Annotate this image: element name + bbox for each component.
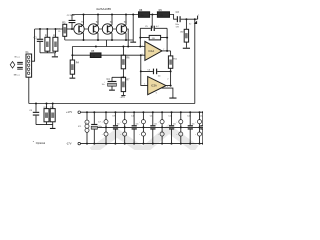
ground under R14 xyxy=(52,125,54,128)
wire IC3A pin3 to ground xyxy=(161,88,173,97)
resistor R12 xyxy=(180,19,189,42)
svg-text:R11: R11 xyxy=(174,59,178,61)
op-amp IC3A xyxy=(144,77,166,95)
resistor R8 xyxy=(139,9,150,17)
node bus2 dots xyxy=(95,46,141,48)
wire feedback right vertical xyxy=(166,28,168,51)
capacitor C11 xyxy=(150,111,158,144)
svg-text:1k: 1k xyxy=(93,56,95,58)
node collector dots xyxy=(83,39,128,41)
svg-text:R4: R4 xyxy=(76,61,80,64)
resistor R1 xyxy=(45,29,50,53)
svg-text:+: + xyxy=(120,134,121,136)
svg-text:K2: K2 xyxy=(189,23,191,25)
battery cell pair BT2 xyxy=(120,111,126,144)
ground under C4 xyxy=(109,90,115,91)
resistor R5 xyxy=(90,50,101,57)
svg-text:*: * xyxy=(33,140,35,144)
wire signal line xyxy=(35,28,63,30)
svg-text:2M2: 2M2 xyxy=(180,31,184,33)
wire bus2 xyxy=(72,46,144,48)
svg-text:NC_L: NC_L xyxy=(15,56,21,58)
capacitor C2 xyxy=(67,15,76,31)
svg-text:6: 6 xyxy=(156,92,157,94)
capacitor C10 xyxy=(131,111,139,144)
svg-text:-17V: -17V xyxy=(120,96,125,99)
svg-text:T4: T4 xyxy=(124,21,127,24)
wire base bus drop to bus2 xyxy=(127,29,129,47)
node R4 tap xyxy=(71,54,73,56)
ground under R1 R2 xyxy=(54,53,56,57)
svg-text:MIC_L: MIC_L xyxy=(14,74,21,76)
resistor R9 xyxy=(157,9,169,17)
wire from R8 R9 node down xyxy=(151,15,153,29)
connector K1 xyxy=(26,51,32,77)
svg-text:+: + xyxy=(104,82,105,84)
transistor T3 xyxy=(102,15,113,41)
wire C3 to output terminal xyxy=(181,18,198,20)
svg-text:+: + xyxy=(195,121,196,123)
svg-text:-17V: -17V xyxy=(66,142,72,146)
svg-text:10n: 10n xyxy=(192,123,195,125)
wire IC3A input drop xyxy=(141,55,148,85)
svg-text:+: + xyxy=(120,121,121,123)
svg-text:Optional: Optional xyxy=(36,142,46,145)
resistor R14 xyxy=(50,104,55,125)
wire bottom of C1 R1 R2 xyxy=(40,52,56,54)
watermark xyxy=(92,129,196,151)
svg-text:+: + xyxy=(176,121,177,123)
svg-text:+17V: +17V xyxy=(66,110,72,114)
node R1 junction xyxy=(46,28,48,30)
node R2 junction xyxy=(55,28,57,30)
capacitor C3 xyxy=(175,11,180,28)
svg-text:10n: 10n xyxy=(173,123,176,125)
resistor R13 xyxy=(44,104,49,125)
svg-text:C11: C11 xyxy=(150,116,154,118)
node C4 tap xyxy=(122,76,124,78)
node rail dots xyxy=(83,14,135,16)
svg-text:10n: 10n xyxy=(117,123,120,125)
svg-text:4n7: 4n7 xyxy=(156,26,159,28)
wire feedback top xyxy=(140,27,167,29)
wire base bus segments xyxy=(84,28,116,30)
ground xyxy=(130,42,136,43)
resistor R3 xyxy=(57,22,66,37)
svg-text:2: 2 xyxy=(167,78,168,80)
battery cell pair BT4 xyxy=(158,111,164,144)
svg-text:T2: T2 xyxy=(96,21,99,24)
battery cell pair BT3 xyxy=(139,111,145,144)
svg-text:IC1: IC1 xyxy=(78,126,82,128)
wire connector ground drop xyxy=(28,77,30,103)
svg-text:R7: R7 xyxy=(126,78,130,81)
svg-text:C13: C13 xyxy=(187,116,192,118)
battery cell pair BT6 xyxy=(195,111,201,144)
wire -17V rail xyxy=(81,143,205,145)
resistor R11 xyxy=(168,51,178,72)
capacitor C5 xyxy=(145,26,159,31)
resistor R6 xyxy=(121,47,130,69)
mic contact plates xyxy=(17,62,23,70)
svg-text:249: 249 xyxy=(152,38,155,40)
IC1 supply block xyxy=(78,111,89,144)
svg-text:C5: C5 xyxy=(145,26,149,28)
svg-text:C12: C12 xyxy=(168,116,173,118)
capacitor C8 xyxy=(29,104,39,125)
svg-text:1: 1 xyxy=(198,14,199,16)
svg-text:63V: 63V xyxy=(176,26,180,28)
wire output return xyxy=(194,19,196,103)
resistor R2 xyxy=(53,29,58,53)
svg-text:+: + xyxy=(158,121,159,123)
svg-text:C4: C4 xyxy=(107,78,111,81)
capacitor C6 xyxy=(147,69,160,78)
svg-text:+: + xyxy=(195,134,196,136)
transistor T4 xyxy=(116,15,127,41)
svg-text:1: 1 xyxy=(144,84,145,86)
svg-text:T1: T1 xyxy=(81,21,84,24)
capacitor C9 xyxy=(112,111,120,144)
svg-text:3: 3 xyxy=(167,86,168,88)
svg-text:C3: C3 xyxy=(176,11,180,14)
ground under R4 xyxy=(71,74,73,77)
svg-text:C14: C14 xyxy=(200,116,203,118)
svg-text:2: 2 xyxy=(142,45,143,47)
wire bus2 left drop xyxy=(71,47,73,61)
svg-text:10n: 10n xyxy=(136,123,139,125)
svg-text:+: + xyxy=(158,134,159,136)
node C1 junction xyxy=(39,28,41,30)
wire feedback left vertical xyxy=(139,28,141,46)
svg-text:+: + xyxy=(176,134,177,136)
svg-text:IC3A: IC3A xyxy=(151,84,157,88)
net -17V stub xyxy=(122,92,124,95)
svg-text:R6: R6 xyxy=(126,56,130,59)
svg-text:C8: C8 xyxy=(29,110,32,112)
wire R6 to R7 xyxy=(122,69,124,78)
capacitor C14 (clipped at edge) xyxy=(200,111,206,144)
capacitor C12 xyxy=(168,111,176,144)
wire IC3A feedback xyxy=(141,70,171,72)
svg-text:C1: C1 xyxy=(34,37,38,40)
microphone diamond symbol xyxy=(10,62,15,69)
battery cell pair BT5 xyxy=(176,111,182,144)
wire C8 R13 R14 taps from rail xyxy=(35,103,54,105)
svg-text:+: + xyxy=(102,121,103,123)
resistor R4 xyxy=(70,60,79,74)
svg-text:C10: C10 xyxy=(131,116,136,118)
svg-text:C2 100n: C2 100n xyxy=(67,15,76,17)
svg-text:10n: 10n xyxy=(154,123,157,125)
wire bus1 to bus2 link xyxy=(106,40,108,47)
svg-text:IC1A: IC1A xyxy=(148,49,154,53)
wire bottom return rail xyxy=(29,103,195,105)
wire R3 to T1 base xyxy=(67,28,74,30)
ground under R12 xyxy=(185,42,187,48)
wire 0V mid rail xyxy=(98,126,204,128)
svg-text:10u: 10u xyxy=(102,84,105,86)
wire +17V rail xyxy=(81,111,205,113)
svg-text:T3: T3 xyxy=(110,21,113,24)
svg-text:+: + xyxy=(102,134,103,136)
svg-text:+: + xyxy=(139,134,140,136)
connector K2 arrow xyxy=(194,21,197,24)
capacitor C13 xyxy=(187,111,195,144)
wire optional bottom bus xyxy=(36,124,53,126)
wire rail to ground xyxy=(132,15,134,42)
transistor T1 xyxy=(74,15,85,41)
transistor T2 xyxy=(88,15,99,41)
wire IC3A output xyxy=(166,71,171,85)
svg-text:1%: 1% xyxy=(58,31,61,33)
resistor R7 xyxy=(121,77,130,91)
wire R5 to IC1A pin3 xyxy=(101,54,145,56)
svg-text:100u: 100u xyxy=(98,126,102,128)
ground under IC3A xyxy=(169,98,176,99)
capacitor C4 xyxy=(102,77,124,89)
svg-text:+: + xyxy=(86,122,87,124)
svg-text:4x2SA1085: 4x2SA1085 xyxy=(96,7,111,11)
op-amp IC1A xyxy=(142,41,165,60)
battery cell pair BT1 xyxy=(102,111,108,144)
wire R9 to C3 xyxy=(170,15,177,20)
resistor R10 xyxy=(139,35,168,40)
wire IC1A output xyxy=(162,50,171,52)
svg-text:+: + xyxy=(139,121,140,123)
capacitor C7 xyxy=(91,111,102,144)
svg-text:10n: 10n xyxy=(158,75,161,77)
wire R8 to R9 xyxy=(150,14,158,16)
wire input riser xyxy=(32,29,35,61)
wire collector bus xyxy=(65,39,133,41)
wire to R5 xyxy=(72,54,90,56)
wire top emitter rail xyxy=(72,14,139,16)
capacitor C1 xyxy=(34,29,44,53)
output terminal pin xyxy=(197,16,199,20)
